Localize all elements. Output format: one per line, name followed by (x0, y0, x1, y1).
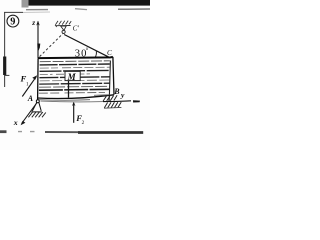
z axis line (37, 21, 39, 58)
frame left thick blot (3, 57, 6, 76)
support hatching under B (103, 95, 117, 101)
pin support at A: legs (32, 102, 41, 111)
svg-text:y: y (120, 91, 125, 100)
figure frame top line (4, 11, 23, 13)
ceiling hatching at C' (55, 21, 71, 25)
scan edge: gray rule fragment right (118, 8, 150, 10)
hanger triangle at C' (61, 26, 66, 30)
scan edge: gray rule fragment middle (75, 8, 87, 11)
paper background (0, 0, 150, 150)
force F2 arrow shaft (73, 103, 75, 123)
pin support at A: base (31, 111, 42, 113)
block top edge (38, 57, 113, 58)
support A base hatching (28, 112, 45, 117)
cable C'-C (64, 35, 110, 58)
block bottom edge (37, 95, 114, 99)
block front face stripes (39, 61, 110, 93)
svg-text:A: A (27, 94, 34, 103)
x axis arrowhead (21, 121, 26, 126)
block outer right edge (113, 57, 114, 95)
z axis arrowhead (36, 21, 40, 26)
pin support at A: ring (36, 100, 39, 103)
svg-text:x: x (13, 118, 18, 127)
ceiling line (56, 25, 71, 27)
figure frame left line (4, 12, 6, 87)
scan edge: bottom main bar (45, 131, 80, 133)
svg-text:B: B (113, 87, 120, 96)
ceiling tick left (55, 25, 57, 27)
force F1 arrow (22, 77, 36, 97)
svg-text:2: 2 (82, 120, 85, 126)
block left edge (37, 58, 40, 100)
svg-text:z: z (31, 18, 35, 27)
frame left tick (5, 74, 10, 76)
block inner right edge (109, 61, 110, 96)
svg-text:1: 1 (26, 81, 29, 87)
svg-text:M: M (67, 72, 77, 82)
scan edge: gray patch left of black bar (22, 0, 29, 8)
x axis line (22, 103, 37, 124)
angle arc (95, 51, 97, 58)
ground hatching right of B (104, 102, 121, 108)
scan edge: bottom dashes (18, 131, 35, 133)
svg-text:9: 9 (10, 17, 15, 28)
ground hatch baseline (104, 106, 121, 109)
svg-text:C: C (107, 49, 112, 57)
block bottom secondary line (37, 99, 90, 102)
scan edge: gray rule fragment left (26, 9, 48, 11)
M flag pole (68, 81, 70, 98)
figure number: circled 9 (7, 15, 19, 27)
F1 arrowhead (32, 75, 37, 79)
support post under inner right edge (108, 95, 110, 101)
svg-text:C′: C′ (73, 25, 80, 33)
ground / y axis line (41, 100, 104, 103)
F2 arrowhead (72, 102, 75, 107)
svg-text:°: ° (86, 48, 89, 55)
hanger ring (62, 30, 65, 33)
scan edge: top black bar (28, 0, 150, 6)
moment M flag box (65, 71, 80, 80)
dashed construction line (40, 34, 63, 57)
y axis arrowhead (133, 100, 140, 102)
block inner bottom edge right (94, 94, 110, 97)
blot on z axis line (37, 43, 40, 50)
scan edge: bottom bar left dash (0, 130, 7, 133)
